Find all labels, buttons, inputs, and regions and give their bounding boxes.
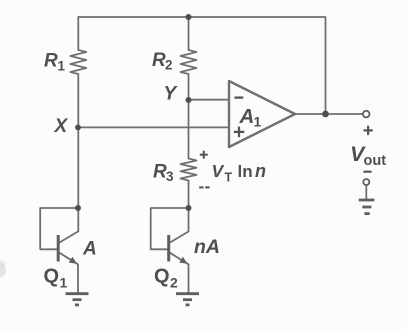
svg-text:R: R bbox=[152, 50, 166, 71]
svg-text:A: A bbox=[82, 238, 97, 259]
svg-text:2: 2 bbox=[165, 58, 173, 73]
svg-text:out: out bbox=[364, 153, 387, 169]
svg-text:1: 1 bbox=[254, 114, 262, 130]
svg-text:Q: Q bbox=[44, 266, 60, 288]
svg-text:Q: Q bbox=[154, 266, 170, 288]
svg-text:nA: nA bbox=[194, 236, 220, 258]
svg-text:R: R bbox=[44, 51, 58, 72]
svg-text:A: A bbox=[239, 105, 255, 128]
svg-text:R: R bbox=[153, 162, 167, 183]
svg-text:n: n bbox=[255, 161, 266, 181]
svg-text:1: 1 bbox=[58, 59, 66, 74]
svg-text:2: 2 bbox=[170, 275, 178, 291]
svg-text:T: T bbox=[225, 170, 233, 184]
svg-text:Y: Y bbox=[164, 84, 179, 105]
svg-text:V: V bbox=[212, 161, 225, 181]
svg-text:3: 3 bbox=[166, 169, 174, 184]
svg-text:X: X bbox=[54, 116, 69, 137]
svg-text:ln: ln bbox=[238, 162, 253, 181]
svg-text:1: 1 bbox=[60, 275, 68, 291]
